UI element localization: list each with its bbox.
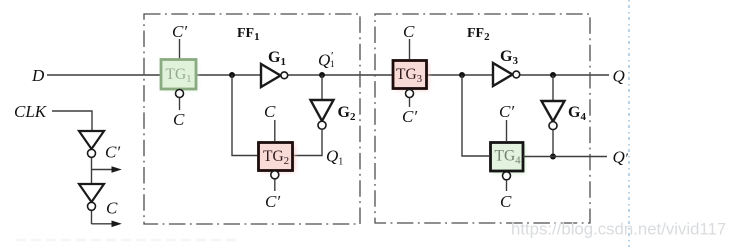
- svg-text:C′: C′: [402, 107, 417, 126]
- wire below inverter1: [91, 158, 93, 225]
- wire G4 to Q' line: [552, 130, 554, 157]
- faint bottom artifact: [16, 239, 238, 242]
- node junction Q1': [319, 72, 325, 78]
- svg-text:Q′1: Q′1: [318, 49, 335, 71]
- op G3 inverter: [493, 63, 513, 86]
- FF1 dashed box: [144, 14, 360, 224]
- wire arrow C' branch: [92, 169, 114, 171]
- wire C to TG3: [409, 39, 411, 59]
- wire arrow C branch: [92, 223, 114, 225]
- wire feedback FF1 down: [232, 75, 257, 156]
- transmission gate TG4: [493, 145, 525, 173]
- svg-text:C: C: [500, 192, 512, 211]
- svg-text:C: C: [264, 102, 276, 121]
- wire G2 to Q1 line: [293, 129, 322, 155]
- FF2 dashed box: [375, 14, 590, 223]
- wire junction to G2: [321, 75, 323, 100]
- transmission gate TG2: [261, 145, 295, 172]
- wire feedback FF2 down: [462, 75, 489, 156]
- svg-text:D: D: [31, 66, 45, 85]
- op G4 inverter: [542, 101, 565, 121]
- transmission gate TG3: [396, 63, 429, 90]
- svg-text:C: C: [403, 22, 415, 41]
- wire TG3 bubble down: [409, 98, 411, 107]
- wire TG2 bubble down: [274, 179, 276, 191]
- svg-text:C′: C′: [105, 143, 120, 162]
- TG1 bottom bubble: [176, 90, 184, 98]
- wire main D line: [47, 74, 609, 76]
- svg-text:C′: C′: [265, 192, 280, 211]
- svg-text:Q: Q: [613, 67, 625, 86]
- svg-text:C′: C′: [499, 102, 514, 121]
- wire Q' line: [523, 156, 607, 158]
- TG3 bottom bubble: [406, 90, 414, 98]
- wire TG1 bubble to C: [179, 98, 181, 110]
- wire TG4 bubble down: [506, 180, 508, 191]
- op G1 inverter: [261, 64, 281, 87]
- svg-text:C: C: [106, 199, 118, 218]
- TG4 bottom bubble: [503, 172, 511, 180]
- inverter clock buffer 2: [79, 184, 104, 202]
- wire junction to G4: [552, 75, 554, 101]
- wire CLK to inverter: [52, 111, 92, 130]
- wire C' to TG4: [506, 120, 508, 141]
- svg-text:https://blog.csdn.net/vivid117: https://blog.csdn.net/vivid117: [511, 220, 726, 239]
- svg-text:CLK: CLK: [14, 102, 48, 121]
- node junction A: [229, 72, 235, 78]
- wire cursor artifact line: [628, 0, 630, 247]
- wire C to TG2: [274, 120, 276, 141]
- node junction B: [459, 72, 465, 78]
- wire C' to TG1: [179, 39, 181, 59]
- transmission gate TG1: [163, 62, 197, 90]
- svg-text:C′: C′: [172, 22, 187, 41]
- node junction Q': [550, 154, 556, 160]
- TG2 bottom bubble: [271, 171, 279, 179]
- op G2 inverter: [311, 100, 334, 121]
- svg-text:C: C: [173, 110, 185, 129]
- inverter clock buffer 1: [79, 131, 104, 149]
- node junction C: [550, 72, 556, 78]
